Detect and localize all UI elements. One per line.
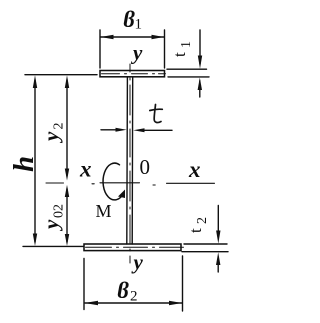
t1 dimension line upper bbox=[199, 30, 201, 64]
svg-text:0: 0 bbox=[140, 155, 151, 179]
web left line bbox=[126, 77, 129, 244]
web right line bbox=[131, 77, 134, 244]
x axis centerline bbox=[46, 183, 215, 185]
svg-text:02: 02 bbox=[52, 204, 67, 218]
b1 arrow right bbox=[152, 35, 165, 40]
label y02 (rotated) bbox=[39, 204, 67, 232]
t arrow left at web bbox=[133, 128, 144, 132]
svg-text:h: h bbox=[8, 156, 40, 172]
t1 dimension line lower bbox=[199, 81, 201, 97]
t arrow right at web bbox=[116, 128, 127, 132]
label t1 (rotated) bbox=[170, 41, 194, 57]
b1 dimension line bbox=[101, 36, 165, 38]
b2 dimension line bbox=[85, 302, 182, 304]
svg-text:x: x bbox=[188, 157, 201, 182]
t2 extension line top bbox=[184, 243, 227, 245]
svg-text:2: 2 bbox=[195, 217, 210, 224]
b1 extension line right bbox=[164, 30, 166, 68]
svg-text:2: 2 bbox=[52, 123, 67, 130]
top flange centerline bbox=[102, 73, 166, 75]
y2 arrow down bbox=[65, 169, 69, 181]
svg-text:ϐ: ϐ bbox=[123, 7, 135, 32]
t2 dimension line lower bbox=[217, 257, 219, 272]
b1 arrow left bbox=[101, 35, 114, 40]
label y2 (rotated) bbox=[39, 123, 67, 145]
t1 arrow up bbox=[198, 78, 202, 91]
label t2 (rotated) bbox=[186, 217, 210, 233]
h extension line top bbox=[25, 74, 97, 76]
svg-text:1: 1 bbox=[135, 17, 143, 33]
svg-text:2: 2 bbox=[130, 289, 138, 305]
svg-text:x: x bbox=[79, 157, 92, 182]
svg-text:t: t bbox=[170, 52, 189, 57]
b2 arrow left bbox=[85, 301, 99, 306]
b1 extension line left bbox=[99, 30, 101, 68]
label t web bbox=[150, 105, 163, 123]
y02 arrow up bbox=[65, 185, 69, 197]
t1 extension line top bbox=[167, 68, 207, 70]
moment M arc bbox=[103, 163, 124, 200]
h arrow down bbox=[33, 234, 37, 247]
t web dimension left line bbox=[101, 129, 122, 131]
moment arc arrowhead bbox=[118, 190, 125, 199]
t2 dimension line upper bbox=[217, 206, 219, 239]
svg-text:t: t bbox=[186, 228, 205, 233]
y axis centerline bbox=[129, 64, 131, 263]
y02 dimension line bbox=[66, 189, 68, 242]
h extension line bottom bbox=[23, 245, 83, 247]
bottom flange centerline bbox=[86, 246, 184, 248]
b2 extension line left bbox=[83, 259, 85, 310]
label h (rotated) bbox=[8, 156, 40, 172]
bottom flange outline bbox=[84, 244, 181, 251]
t2 arrow up bbox=[216, 252, 220, 265]
svg-text:1: 1 bbox=[179, 41, 194, 48]
y2 dimension line bbox=[66, 80, 68, 176]
t2 extension line bottom bbox=[182, 251, 228, 253]
top flange outline bbox=[100, 71, 165, 77]
t1 arrow down bbox=[198, 56, 202, 69]
t1 extension line bottom bbox=[168, 76, 209, 78]
b2 arrow right bbox=[169, 301, 182, 306]
svg-text:ϐ: ϐ bbox=[117, 278, 129, 303]
y02 arrow down bbox=[65, 234, 69, 246]
svg-text:M: M bbox=[96, 201, 112, 221]
h arrow up bbox=[33, 75, 37, 88]
t web dimension right line bbox=[138, 129, 172, 131]
h dimension line bbox=[34, 80, 36, 242]
b2 extension line right bbox=[182, 256, 184, 311]
y2 arrow up bbox=[65, 75, 69, 88]
t2 arrow down bbox=[216, 231, 220, 244]
